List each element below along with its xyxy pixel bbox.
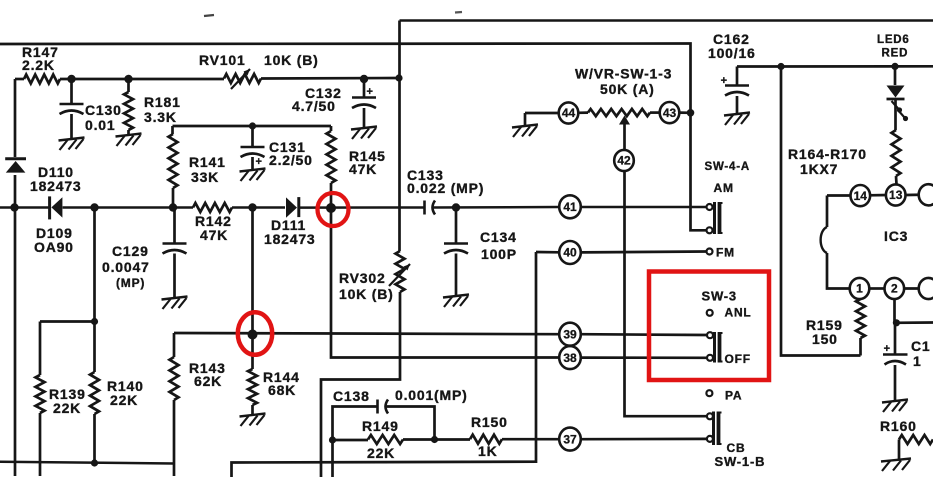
svg-text:2.2K: 2.2K bbox=[22, 57, 55, 73]
svg-text:RV101: RV101 bbox=[199, 52, 246, 68]
svg-text:47K: 47K bbox=[200, 227, 228, 243]
svg-text:0.01: 0.01 bbox=[85, 117, 115, 133]
svg-text:2.2/50: 2.2/50 bbox=[269, 152, 313, 168]
svg-text:1: 1 bbox=[913, 353, 922, 369]
svg-text:50K (A): 50K (A) bbox=[600, 81, 655, 97]
svg-text:100P: 100P bbox=[481, 246, 517, 262]
svg-text:13: 13 bbox=[889, 188, 903, 202]
svg-text:42: 42 bbox=[617, 154, 631, 168]
svg-text:1K: 1K bbox=[478, 443, 498, 459]
svg-text:10K (B): 10K (B) bbox=[339, 286, 394, 302]
svg-text:14: 14 bbox=[854, 189, 868, 203]
svg-text:PA: PA bbox=[725, 389, 742, 403]
svg-text:C134: C134 bbox=[480, 229, 517, 245]
svg-text:C129: C129 bbox=[112, 243, 149, 259]
svg-text:68K: 68K bbox=[268, 382, 296, 398]
svg-text:SW-3: SW-3 bbox=[702, 289, 737, 304]
svg-text:150: 150 bbox=[812, 331, 838, 347]
svg-text:100/16: 100/16 bbox=[708, 45, 756, 61]
svg-text:62K: 62K bbox=[194, 373, 222, 389]
svg-text:22K: 22K bbox=[110, 392, 138, 408]
svg-text:(MP): (MP) bbox=[116, 276, 145, 290]
svg-text:41: 41 bbox=[563, 200, 577, 214]
svg-text:R149: R149 bbox=[362, 418, 399, 434]
svg-text:0.001(MP): 0.001(MP) bbox=[395, 387, 468, 403]
svg-text:+: + bbox=[367, 86, 373, 98]
svg-text:FM: FM bbox=[716, 246, 735, 260]
svg-text:33K: 33K bbox=[191, 169, 219, 185]
svg-text:C130: C130 bbox=[85, 102, 122, 118]
svg-text:22K: 22K bbox=[53, 400, 81, 416]
svg-text:43: 43 bbox=[663, 106, 677, 120]
svg-text:OFF: OFF bbox=[725, 352, 751, 366]
svg-text:37: 37 bbox=[563, 432, 577, 446]
svg-text:47K: 47K bbox=[349, 161, 377, 177]
svg-text:40: 40 bbox=[563, 246, 577, 260]
svg-text:2: 2 bbox=[891, 282, 898, 296]
svg-text:RED: RED bbox=[882, 48, 909, 60]
svg-text:AM: AM bbox=[714, 181, 734, 195]
svg-text:4.7/50: 4.7/50 bbox=[292, 98, 336, 114]
svg-text:1: 1 bbox=[856, 282, 863, 296]
svg-text:R164-R170: R164-R170 bbox=[788, 146, 867, 162]
svg-text:3.3K: 3.3K bbox=[144, 109, 177, 125]
svg-text:SW-1-B: SW-1-B bbox=[715, 454, 766, 469]
svg-text:RV302: RV302 bbox=[339, 270, 386, 286]
svg-text:R150: R150 bbox=[471, 414, 508, 430]
svg-text:0.022 (MP): 0.022 (MP) bbox=[407, 180, 484, 196]
svg-text:R141: R141 bbox=[189, 154, 226, 170]
svg-text:ANL: ANL bbox=[725, 306, 752, 320]
svg-text:44: 44 bbox=[562, 106, 576, 120]
svg-text:R181: R181 bbox=[144, 94, 181, 110]
svg-text:SW-4-A: SW-4-A bbox=[705, 161, 750, 173]
svg-text:182473: 182473 bbox=[30, 178, 82, 194]
svg-text:IC3: IC3 bbox=[884, 228, 908, 244]
svg-text:22K: 22K bbox=[367, 445, 395, 461]
svg-text:+: + bbox=[884, 343, 890, 355]
svg-text:C1: C1 bbox=[911, 338, 931, 354]
svg-text:0.0047: 0.0047 bbox=[102, 259, 150, 275]
svg-text:W/VR-SW-1-3: W/VR-SW-1-3 bbox=[575, 66, 672, 82]
svg-text:R160: R160 bbox=[880, 418, 917, 434]
svg-text:39: 39 bbox=[563, 327, 577, 341]
svg-text:182473: 182473 bbox=[264, 231, 316, 247]
svg-text:10K (B): 10K (B) bbox=[264, 52, 319, 68]
svg-text:+: + bbox=[721, 75, 727, 87]
svg-text:LED6: LED6 bbox=[877, 34, 910, 46]
svg-text:+: + bbox=[256, 156, 262, 168]
svg-text:38: 38 bbox=[563, 351, 577, 365]
svg-text:C138: C138 bbox=[333, 388, 370, 404]
svg-text:1KX7: 1KX7 bbox=[800, 161, 838, 177]
svg-text:OA90: OA90 bbox=[34, 239, 74, 255]
